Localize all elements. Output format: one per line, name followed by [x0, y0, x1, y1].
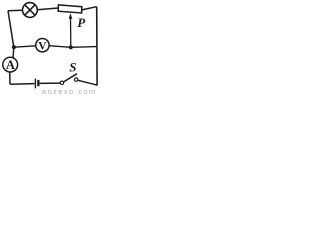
battery cell: [35, 79, 39, 89]
switch S: [60, 74, 78, 85]
svg-text:S: S: [69, 59, 76, 74]
svg-text:P: P: [77, 15, 86, 30]
svg-text:A: A: [6, 58, 15, 72]
wire bottom-right corner to switch: [78, 80, 97, 85]
background: [0, 0, 101, 94]
wire voltmeter to junction right: [49, 46, 71, 48]
rheostat slider arrow: [69, 13, 73, 47]
node junction right: [69, 45, 73, 49]
wire left side (top-left corner down to junction and ammeter): [8, 11, 14, 58]
wire lamp to rheostat: [37, 8, 58, 10]
wire bottom-left corner up to ammeter: [9, 72, 11, 84]
wire rheostat to top-right corner: [82, 7, 97, 10]
wire battery to bottom-left corner: [10, 83, 35, 86]
wire junction right to right side: [71, 46, 97, 49]
svg-text:anzexo.com: anzexo.com: [42, 87, 97, 94]
rheostat R (resistor box): [58, 5, 82, 13]
node junction left: [12, 45, 16, 49]
wire junction to voltmeter: [14, 46, 36, 47]
wire right side (top-right corner down): [96, 7, 98, 86]
ammeter A: [3, 57, 18, 72]
voltmeter V: [36, 39, 49, 52]
lamp L (circle with X): [23, 3, 38, 18]
wire switch to battery: [40, 82, 61, 84]
wire top-left to lamp: [8, 9, 22, 12]
svg-text:V: V: [38, 40, 47, 52]
